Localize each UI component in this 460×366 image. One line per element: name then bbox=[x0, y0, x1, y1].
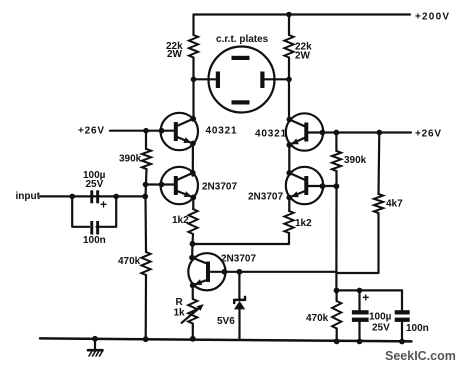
svg-text:2N3707: 2N3707 bbox=[221, 253, 256, 264]
svg-text:25V: 25V bbox=[86, 179, 104, 190]
svg-text:+: + bbox=[100, 198, 107, 212]
svg-text:1k: 1k bbox=[174, 308, 186, 319]
svg-text:4k7: 4k7 bbox=[386, 199, 403, 210]
svg-text:c.r.t. plates: c.r.t. plates bbox=[216, 34, 269, 45]
svg-text:+200V: +200V bbox=[415, 12, 450, 23]
svg-text:390k: 390k bbox=[119, 154, 142, 165]
svg-text:100µ: 100µ bbox=[369, 312, 392, 323]
svg-text:1k2: 1k2 bbox=[295, 218, 312, 229]
svg-text:2N3707: 2N3707 bbox=[248, 192, 283, 203]
svg-text:470k: 470k bbox=[118, 256, 141, 267]
svg-text:2W: 2W bbox=[295, 51, 311, 62]
svg-text:1k2: 1k2 bbox=[172, 215, 189, 226]
svg-text:2N3707: 2N3707 bbox=[202, 182, 237, 193]
svg-text:100n: 100n bbox=[406, 323, 429, 334]
svg-text:R: R bbox=[176, 297, 184, 308]
svg-text:+26V: +26V bbox=[415, 129, 442, 140]
svg-text:470k: 470k bbox=[306, 313, 329, 324]
svg-text:40321: 40321 bbox=[206, 126, 238, 137]
svg-text:+: + bbox=[362, 291, 369, 305]
svg-text:25V: 25V bbox=[372, 323, 390, 334]
svg-text:+26V: +26V bbox=[78, 126, 105, 137]
svg-text:2W: 2W bbox=[167, 49, 183, 60]
svg-text:100n: 100n bbox=[83, 235, 106, 246]
svg-text:input: input bbox=[16, 191, 41, 202]
svg-text:40321: 40321 bbox=[255, 129, 287, 140]
svg-text:390k: 390k bbox=[344, 155, 367, 166]
svg-text:5V6: 5V6 bbox=[217, 316, 235, 327]
svg-text:SeekIC.com: SeekIC.com bbox=[385, 349, 456, 363]
